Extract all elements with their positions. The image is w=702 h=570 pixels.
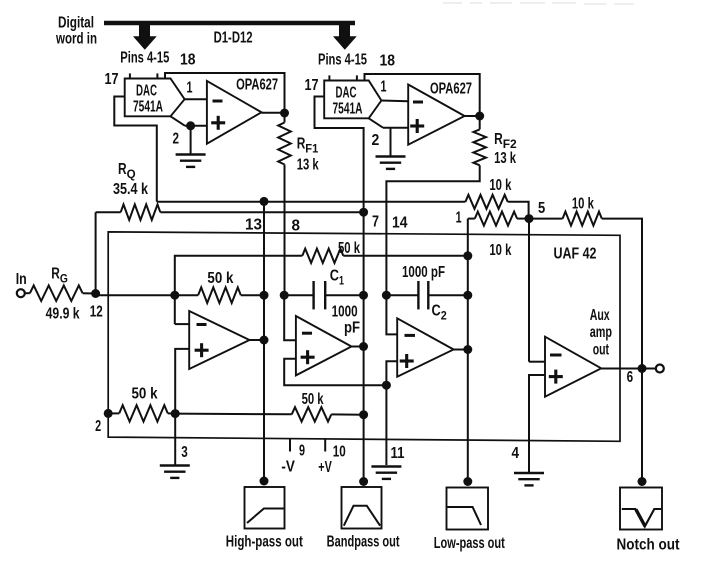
label pF (C1): [344, 320, 360, 337]
wire A4 plus input: [529, 375, 545, 473]
wire corner pin1: [468, 218, 475, 220]
scan artifact marks: [443, 3, 634, 4]
wire A4 minus input: [529, 361, 545, 363]
wire U2 out2 to op-amp plus: [383, 127, 408, 129]
wire A1 minus input: [175, 323, 189, 325]
svg-text:D1-D12: D1-D12: [214, 30, 253, 47]
wire A4 output: [601, 368, 656, 370]
op-amp U4 OPA627 triangle: [408, 85, 464, 145]
label 11 (pin 11): [391, 445, 405, 462]
svg-text:Notch out: Notch out: [617, 537, 681, 554]
label 14 (pin 14): [392, 215, 408, 232]
label 18 (U1 pin 18): [180, 52, 196, 69]
op-amp U3 plus sign: [211, 116, 225, 130]
wire A3 output: [454, 349, 468, 351]
label 49.9 k: [46, 306, 80, 323]
label RF2: [494, 131, 517, 151]
svg-text:18: 18: [180, 52, 196, 69]
label DAC 7541A (U1): [133, 83, 163, 116]
node pin14/C2 junction: [382, 291, 391, 300]
label 1000 pF (C2): [402, 264, 445, 281]
label 3 (pin 3): [181, 444, 188, 461]
wire/resistor 50k (A1 minus to LP node): [175, 249, 468, 325]
label C1: [330, 268, 344, 288]
label Bandpass out: [327, 534, 400, 551]
label 18 (U2 pin 18): [380, 53, 396, 70]
ground pin 11: [371, 467, 401, 479]
label 12 (pin 12): [90, 304, 103, 321]
node pin13/A1out junction: [260, 291, 269, 300]
label 50 k (A1 feedback): [207, 270, 233, 287]
wire row from U1 pin17 line to 10k: [157, 201, 466, 203]
svg-text:13 k: 13 k: [494, 150, 516, 167]
svg-text:1: 1: [381, 79, 387, 96]
resistor RQ 35.4k: [96, 204, 364, 293]
label 10 (pin 10): [333, 444, 346, 461]
resistor 50k (pin3 to BP line): [175, 407, 363, 421]
svg-text:6: 6: [627, 369, 634, 386]
op-amp U3 OPA627 triangle: [207, 81, 262, 144]
svg-text:2: 2: [173, 131, 180, 148]
svg-text:4: 4: [512, 445, 520, 462]
svg-text:pF: pF: [344, 320, 360, 337]
svg-text:UAF 42: UAF 42: [554, 246, 597, 263]
node 5: [525, 214, 534, 223]
label RQ: [118, 161, 136, 181]
label 1000 (C1): [332, 304, 358, 321]
wire A1 output: [250, 339, 265, 341]
op-amp A3 triangle: [397, 318, 453, 376]
wire ground stem U1: [190, 126, 192, 154]
wire U1 out1 to op-amp minus: [185, 98, 207, 100]
node 12 input node: [91, 289, 100, 298]
svg-text:10 k: 10 k: [489, 242, 511, 259]
node LP box: [463, 477, 472, 486]
svg-text:13: 13: [245, 217, 262, 234]
label 9 (pin 9): [299, 443, 305, 460]
op-amp U3 minus sign: [213, 100, 223, 103]
svg-text:Bandpass out: Bandpass out: [327, 534, 400, 551]
svg-text:OPA627: OPA627: [236, 77, 278, 94]
node A2 output: [359, 342, 368, 351]
node U3 output: [280, 109, 289, 118]
resistor 50k (pin2 to pin3): [108, 405, 175, 421]
svg-text:7: 7: [372, 214, 379, 231]
node pin7/C1 junction: [359, 291, 368, 300]
label 5 (pin 5): [538, 200, 545, 217]
UAF42 package outline: [108, 232, 620, 441]
svg-text:9: 9: [299, 443, 305, 460]
svg-text:3: 3: [181, 444, 188, 461]
label 50 k (row 255): [338, 240, 360, 257]
node pin2 junction: [104, 409, 113, 418]
svg-text:out: out: [593, 341, 610, 358]
svg-text:10: 10: [333, 444, 346, 461]
label 2 (U1 out2): [173, 131, 180, 148]
svg-text:8: 8: [292, 218, 301, 235]
label 13 k (RF1): [297, 157, 319, 174]
svg-text:1: 1: [187, 80, 193, 97]
node A4 output (notch): [638, 364, 647, 373]
resistor 10k (pin1 to node5): [475, 212, 529, 226]
DAC U1 7541A body: [125, 79, 185, 126]
wire U2 out1 to op-amp minus: [381, 100, 408, 103]
svg-text:2: 2: [372, 132, 380, 149]
label Notch out: [617, 537, 681, 554]
op-amp A4 plus sign: [549, 370, 563, 384]
wire A1 plus input: [175, 349, 189, 414]
label 8 (pin 8): [292, 218, 301, 235]
label In: [16, 271, 27, 288]
svg-text:49.9 k: 49.9 k: [46, 306, 80, 323]
wire LP vertical: [467, 219, 469, 482]
svg-text:DAC: DAC: [336, 85, 357, 102]
op-amp A4 minus sign: [550, 354, 562, 357]
label 50 k (bottom left): [132, 386, 158, 403]
input terminal: [17, 289, 25, 297]
ground pin 4: [514, 473, 544, 485]
wire A2 output: [352, 346, 364, 348]
svg-text:1000: 1000: [332, 304, 358, 321]
node LP line at 50k row: [463, 251, 472, 260]
wire pin8 node to C1: [284, 294, 313, 296]
node BP box: [359, 477, 368, 486]
label 6 (pin 6): [627, 369, 634, 386]
svg-text:amp: amp: [590, 324, 612, 341]
svg-text:35.4 k: 35.4 k: [113, 181, 148, 198]
label UAF 42: [554, 246, 597, 263]
svg-text:17: 17: [105, 71, 119, 88]
node HP box: [260, 477, 269, 486]
wire pin11 ground stem: [385, 385, 387, 465]
wire U1 out2 to op-amp plus: [185, 125, 207, 127]
svg-text:Pins 4-15: Pins 4-15: [318, 52, 367, 69]
wire node12 to A1 minus node: [96, 294, 175, 296]
label 4 (pin 4): [512, 445, 520, 462]
wire node5 to aux minus: [528, 219, 530, 362]
op-amp A1 minus sign: [197, 323, 207, 326]
op-amp A1 plus sign: [195, 343, 209, 357]
label D1-D12: [214, 30, 253, 47]
ground below U1 op-amp: [176, 155, 206, 167]
op-amp U4 minus sign: [413, 101, 423, 104]
node LP/C2 junction: [463, 291, 472, 300]
wire A3 minus input: [386, 295, 397, 334]
svg-text:50 k: 50 k: [302, 391, 324, 408]
label 17 (U1 pin 17): [105, 71, 119, 88]
resistor RF1 13k: [278, 113, 291, 295]
label High-pass out: [226, 534, 303, 551]
label 2 (pin 2): [95, 418, 101, 435]
svg-text:word in: word in: [55, 31, 97, 48]
op-amp A3 minus sign: [405, 334, 416, 337]
wire A2 minus input: [284, 295, 296, 340]
bus arrow into DAC U1: [133, 23, 156, 50]
capacitor C1 1000pF: [314, 281, 364, 309]
wire A3 plus input: [386, 361, 397, 385]
node A1 minus junction: [170, 291, 179, 300]
label 1 (aux amp pin 1): [456, 210, 462, 227]
svg-text:10 k: 10 k: [489, 177, 511, 194]
label RG: [51, 266, 68, 286]
resistor RF2 13k: [386, 116, 486, 295]
high-pass response box: [245, 487, 285, 529]
wire A2 plus input: [284, 359, 386, 386]
node RQ to pin 7 line: [359, 208, 368, 217]
wire U2 pin18 feedback: [365, 74, 480, 116]
svg-text:DAC: DAC: [136, 83, 157, 100]
DAC U2 7541A body: [324, 81, 383, 128]
svg-text:Low-pass out: Low-pass out: [434, 535, 505, 552]
resistor 10k (node5 to notch line): [529, 212, 642, 369]
label 35.4 k: [113, 181, 148, 198]
wire U1 pin17 path: [114, 97, 157, 202]
wire U2 pin17 path: [315, 97, 364, 213]
svg-text:Pins 4-15: Pins 4-15: [120, 50, 169, 67]
svg-text:-V: -V: [281, 459, 295, 476]
label 1 (U2 out1): [381, 79, 387, 96]
op-amp A3 plus sign: [400, 354, 414, 368]
label -V: [281, 459, 295, 476]
node Notch box: [638, 477, 647, 486]
svg-text:+V: +V: [318, 459, 332, 476]
label OPA627 (U3): [236, 77, 278, 94]
ground pin 3: [160, 466, 190, 478]
label 50 k (bottom mid): [302, 391, 324, 408]
svg-text:11: 11: [391, 445, 405, 462]
svg-text:7541A: 7541A: [133, 99, 163, 116]
pin 9 tick: [289, 439, 291, 452]
wire pin14 node to C2: [386, 294, 418, 296]
wire pin7 vertical (BP): [363, 212, 365, 481]
svg-text:2: 2: [95, 418, 101, 435]
wire notch vertical: [641, 369, 643, 482]
capacitor C2 1000pF: [418, 281, 467, 309]
bandpass response box: [342, 487, 382, 529]
low-pass response box: [447, 488, 489, 530]
svg-text:Aux: Aux: [590, 307, 610, 324]
op-amp A2 triangle: [296, 316, 352, 375]
label RF1: [297, 136, 319, 156]
wire U1 pin18 feedback: [165, 73, 285, 113]
label 17 (U2 pin 17): [305, 77, 319, 94]
wire U3 output: [262, 112, 285, 114]
node A3 output: [463, 345, 472, 354]
node pin11 junction: [382, 381, 391, 390]
svg-text:OPA627: OPA627: [430, 81, 472, 98]
node A1 output: [260, 336, 269, 345]
op-amp A4 aux triangle: [545, 337, 601, 397]
svg-text:14: 14: [392, 215, 408, 232]
label 10 k (node5 right): [572, 196, 594, 213]
digital bus D1-D12: [104, 21, 355, 26]
node U4 output: [475, 112, 484, 121]
svg-text:50 k: 50 k: [338, 240, 360, 257]
op-amp A2 minus sign: [302, 332, 312, 335]
svg-text:18: 18: [380, 53, 396, 70]
label Low-pass out: [434, 535, 505, 552]
svg-text:10 k: 10 k: [572, 196, 594, 213]
svg-text:Digital: Digital: [58, 15, 94, 32]
pin 10 tick: [324, 439, 326, 452]
svg-text:7541A: 7541A: [333, 101, 363, 118]
label OPA627 (U4): [430, 81, 472, 98]
output terminal: [656, 365, 664, 373]
svg-text:1: 1: [456, 210, 462, 227]
label 10 k (pin1): [489, 242, 511, 259]
svg-text:In: In: [16, 271, 27, 288]
pin ticks 4-15 (U2): [329, 75, 357, 80]
notch response box: [620, 488, 662, 530]
wire pin3 ground stem: [174, 414, 176, 466]
label 7 (pin 7): [372, 214, 379, 231]
pin ticks 4-15 (U1): [130, 73, 158, 78]
svg-text:50 k: 50 k: [132, 386, 158, 403]
resistor 10k upper (to node 5): [465, 195, 528, 219]
label Aux amp out: [590, 307, 612, 358]
wire pin13 vertical (HP): [263, 201, 265, 481]
bus arrow into DAC U2: [333, 23, 356, 50]
label 1 (U1 out1): [187, 80, 193, 97]
svg-text:5: 5: [538, 200, 545, 217]
label DAC 7541A (U2): [333, 85, 363, 118]
op-amp U4 plus sign: [410, 119, 424, 133]
resistor 50k A1 feedback: [175, 287, 264, 303]
node pin3 junction: [171, 409, 180, 418]
resistor RG 49.9k: [25, 285, 96, 301]
ground below U2 op-amp: [376, 157, 406, 169]
svg-text:13 k: 13 k: [297, 157, 319, 174]
label Digital word in: [55, 15, 97, 48]
node BP line at 50k row: [359, 410, 368, 419]
label +V: [318, 459, 332, 476]
svg-text:17: 17: [305, 77, 319, 94]
wire ground stem U2: [390, 128, 392, 156]
label 10 k (upper): [489, 177, 511, 194]
svg-text:12: 12: [90, 304, 103, 321]
node U1 plus-input junction: [186, 121, 195, 130]
node pin8 junction: [280, 291, 289, 300]
svg-text:High-pass out: High-pass out: [226, 534, 303, 551]
label 2 (U2 out2): [372, 132, 380, 149]
label Pins 4-15 (U1): [120, 50, 169, 67]
op-amp A1 triangle: [189, 311, 249, 369]
svg-text:1000 pF: 1000 pF: [402, 264, 445, 281]
op-amp A2 plus sign: [301, 350, 315, 364]
wire U4 output: [465, 115, 480, 117]
svg-text:50 k: 50 k: [207, 270, 233, 287]
label 13 (pin 13): [245, 217, 262, 234]
label C2: [432, 303, 447, 323]
label Pins 4-15 (U2): [318, 52, 367, 69]
label 13 k (RF2): [494, 150, 516, 167]
node on row at pin 13 line: [260, 197, 269, 206]
